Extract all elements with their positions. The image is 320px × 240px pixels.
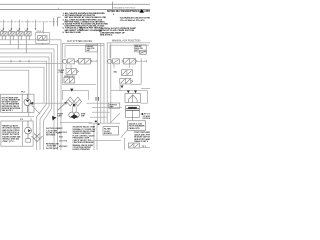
svg-text:SEE NOTE 3: SEE NOTE 3 bbox=[2, 110, 13, 112]
node junction mark bbox=[70, 89, 73, 92]
wire aux box left bbox=[62, 43, 96, 84]
valve SV5 boxed bbox=[36, 33, 50, 44]
wire bl of br verticals bbox=[124, 138, 126, 150]
node DV2 arrows bbox=[127, 90, 130, 93]
wire bottom long bbox=[60, 122, 92, 124]
node right notes block bbox=[100, 27, 136, 37]
wire manual box top bbox=[107, 42, 150, 44]
node valve row labels bbox=[1, 29, 44, 33]
wire aux box top bbox=[62, 42, 104, 44]
svg-text:CTRL: CTRL bbox=[59, 72, 65, 74]
wire manifold drop 4 bbox=[27, 22, 29, 29]
wire RM right v bbox=[140, 58, 142, 84]
wire tank drop 3 bbox=[43, 121, 45, 150]
wire top border line 1 bbox=[0, 3, 150, 5]
wire manifold drop 5 bbox=[35, 22, 37, 29]
wire mid bundle v3 bbox=[103, 43, 105, 123]
svg-text:CV1 CV2: CV1 CV2 bbox=[59, 141, 67, 143]
wire strainer stub bbox=[30, 118, 32, 121]
wire right edge h bbox=[141, 88, 150, 90]
wire power unit out bbox=[0, 116, 34, 118]
node CV2 label bbox=[64, 76, 76, 78]
svg-text:SEE NOTE 4: SEE NOTE 4 bbox=[100, 34, 113, 37]
wire lower h 117 bbox=[90, 116, 107, 118]
node mid bottom note B bbox=[46, 144, 59, 150]
wire bus h5 bbox=[0, 57, 49, 106]
wire bus h8 bbox=[0, 67, 44, 103]
wire mid bundle v1 bbox=[97, 43, 99, 123]
node legend right column bbox=[73, 126, 97, 152]
wire manual box left bbox=[106, 43, 108, 123]
svg-text:MANUAL AUX FUNCTION: MANUAL AUX FUNCTION bbox=[112, 40, 141, 43]
wire manifold drop 2 bbox=[11, 22, 13, 29]
node junction marks bbox=[95, 121, 97, 123]
wire bottom cross h2 bbox=[90, 139, 121, 141]
wire tank diagonal 1 bbox=[37, 104, 47, 117]
pump P1 dark fill bbox=[71, 114, 78, 119]
wire br bottom h bbox=[139, 147, 150, 149]
wire 4way feed top bbox=[62, 91, 88, 100]
wire RM drop bbox=[119, 85, 121, 91]
svg-text:SV1: SV1 bbox=[59, 128, 63, 130]
wire top border line 2 bbox=[0, 8, 150, 10]
wire tank drop 2 bbox=[39, 119, 41, 150]
svg-text:P-2: P-2 bbox=[20, 119, 23, 121]
node aux info box bbox=[86, 45, 98, 52]
wire bus h9 bbox=[0, 70, 29, 116]
svg-text:LEVER OPERATED: LEVER OPERATED bbox=[73, 148, 91, 150]
svg-text:NOTED REV DESCRIPTION DATE APP: NOTED REV DESCRIPTION DATE APPR DWN CK bbox=[107, 10, 150, 13]
node revision triangle marker bbox=[140, 9, 145, 12]
svg-text:PANEL MTD: PANEL MTD bbox=[129, 127, 140, 130]
svg-text:NO KINKS: NO KINKS bbox=[46, 135, 56, 137]
svg-text:SLOPE 1/4 FT: SLOPE 1/4 FT bbox=[46, 147, 59, 150]
node quick disconnect pair bbox=[54, 17, 61, 26]
svg-text:.XX ±.03 ANG ±1 FR ±1/16: .XX ±.03 ANG ±1 FR ±1/16 bbox=[120, 19, 146, 22]
wire manifold drop 1 bbox=[3, 22, 5, 29]
node legend left column bbox=[59, 128, 67, 148]
svg-text:6. TAG EACH LINE: 6. TAG EACH LINE bbox=[63, 31, 82, 34]
svg-text:SV2 SV3: SV2 SV3 bbox=[59, 132, 67, 134]
svg-text:BYPASS: BYPASS bbox=[104, 132, 112, 135]
node ref box bbox=[109, 103, 120, 108]
node br text block bbox=[134, 131, 154, 143]
node header MANUAL AUX FUNCTION bbox=[112, 40, 141, 43]
node zone number bbox=[58, 8, 60, 10]
valve AV1 bbox=[63, 59, 77, 64]
wire mid tail v2 bbox=[96, 123, 98, 150]
node revision strip text bbox=[107, 10, 161, 13]
node mid bottom note A bbox=[46, 128, 62, 136]
wire bus h4 bbox=[0, 53, 52, 109]
valve MV1 bbox=[108, 59, 120, 64]
valve CV2 bbox=[64, 77, 75, 83]
svg-text:TK-1: TK-1 bbox=[21, 92, 25, 94]
valve SV3 bbox=[17, 31, 23, 49]
svg-text:TOLERANCES UNLESS NOTED: TOLERANCES UNLESS NOTED bbox=[120, 17, 151, 20]
wire bus h2 bbox=[0, 45, 58, 150]
valve SV1 bbox=[1, 31, 7, 40]
svg-text:AUX SYSTEM VALVES: AUX SYSTEM VALVES bbox=[67, 40, 92, 43]
wire MV2 out bbox=[137, 60, 146, 62]
node spec box corner text bbox=[20, 119, 23, 121]
valve DV1 diamond right bbox=[74, 97, 81, 106]
node cyl label arrow bbox=[141, 113, 143, 116]
wire RM bottom h bbox=[131, 83, 142, 85]
svg-text:RELEASED FOR PROD: RELEASED FOR PROD bbox=[114, 6, 136, 9]
svg-text:8 STROKE: 8 STROKE bbox=[143, 118, 150, 120]
node DV1 center mark bbox=[73, 104, 75, 107]
valve SV4 bbox=[25, 31, 31, 53]
wire bus h3 bbox=[0, 49, 54, 150]
node spec box text bbox=[2, 124, 21, 142]
node bottom mid box bbox=[103, 127, 119, 135]
valve RM2 bbox=[120, 78, 133, 84]
node tick pair junctions bbox=[96, 97, 98, 101]
node strainer vee bbox=[32, 136, 43, 142]
svg-text:TABLE 2 SHT 2: TABLE 2 SHT 2 bbox=[134, 140, 148, 143]
valve RM1 bbox=[121, 70, 132, 76]
valve SV2 bbox=[9, 31, 15, 44]
node flow arrow bbox=[52, 116, 57, 121]
valve DV1 diamond left bbox=[67, 97, 74, 106]
valve BR1 bbox=[128, 143, 139, 148]
cylinder CYL1 bbox=[126, 106, 140, 118]
wire tank diagonal 3 bbox=[44, 109, 52, 122]
valve AV2 bbox=[77, 58, 93, 64]
wire tank diagonal 2 bbox=[40, 106, 49, 119]
node spec box bbox=[1, 121, 33, 146]
wire bottom cross h1 bbox=[89, 122, 121, 124]
valve DV2 bbox=[125, 94, 140, 103]
wire tank drop 1 bbox=[36, 117, 38, 150]
valve MV2 bbox=[122, 58, 138, 64]
node P1 label bbox=[81, 114, 86, 118]
node notes delta bbox=[79, 27, 83, 30]
pump P1 circles bbox=[69, 112, 79, 118]
svg-text:MV1 MV2: MV1 MV2 bbox=[59, 146, 67, 148]
svg-text:CHECK VLV: CHECK VLV bbox=[64, 76, 76, 78]
wire bus h7 bbox=[0, 63, 62, 65]
node arrow near RM2 bbox=[121, 86, 124, 89]
wire title strip divider bbox=[112, 2, 114, 10]
wire DV1 to pump v1 bbox=[72, 106, 74, 112]
node bus h6 ticks bbox=[11, 60, 29, 62]
node DV1 lever arrow bbox=[58, 104, 66, 111]
node strainer cross bbox=[34, 134, 40, 139]
wire manifold drop 6 bbox=[43, 22, 45, 34]
wire lower h 107 bbox=[92, 107, 122, 109]
node power unit text bbox=[2, 97, 21, 112]
wire manual inner box bbox=[110, 45, 149, 58]
node br corner box bbox=[128, 121, 146, 131]
wire lower h 103 bbox=[29, 102, 68, 104]
node tolerance block bbox=[120, 17, 152, 23]
node power unit box bbox=[1, 94, 34, 112]
wire aux inner box bbox=[65, 46, 104, 58]
node note 05 marker bbox=[99, 30, 102, 33]
wire bus h1 bbox=[0, 40, 61, 150]
wire diagonal to box bbox=[110, 113, 120, 123]
wire mid bundle v4 bbox=[110, 43, 112, 123]
wire mid h103 segment bbox=[86, 102, 108, 104]
wire lower h 112 bbox=[92, 111, 110, 113]
node rev small text bbox=[96, 13, 115, 24]
wire right corner drop bbox=[140, 91, 147, 104]
node CYL1 label bbox=[143, 114, 153, 120]
node motor glyph below pump bbox=[26, 139, 31, 143]
svg-text:CRACKING PRESSURE: CRACKING PRESSURE bbox=[73, 141, 95, 144]
node RM1 label bbox=[114, 72, 119, 74]
wire br diagonal bbox=[121, 130, 128, 138]
node notes text block bbox=[63, 12, 109, 34]
wire DV1 to pump v2 bbox=[75, 106, 77, 112]
node header AUX SYSTEM bbox=[67, 40, 92, 43]
wire left manifold header line bbox=[0, 21, 57, 23]
wire pump diagonal bbox=[31, 105, 40, 115]
wire mid tail v1 bbox=[93, 123, 95, 150]
wire right mid h bbox=[111, 90, 147, 92]
valve relief R1 bbox=[140, 50, 147, 54]
pump P2 bbox=[24, 94, 31, 112]
valve CV1 bbox=[66, 69, 79, 75]
pump P3 bbox=[25, 121, 32, 139]
svg-text:ITEM 7 QTY 1: ITEM 7 QTY 1 bbox=[2, 141, 14, 143]
node P1 left label bbox=[58, 114, 64, 118]
node TP label bbox=[142, 146, 146, 148]
wire manifold drop 3 bbox=[19, 22, 21, 29]
node manual info box bbox=[134, 45, 146, 52]
wire cyl rod stub bbox=[132, 117, 134, 120]
wire MV stubs bbox=[66, 60, 130, 69]
wire mid bundle v2 bbox=[100, 43, 102, 123]
wire bus h6 bbox=[0, 61, 47, 104]
node CV1 label bbox=[59, 70, 65, 74]
